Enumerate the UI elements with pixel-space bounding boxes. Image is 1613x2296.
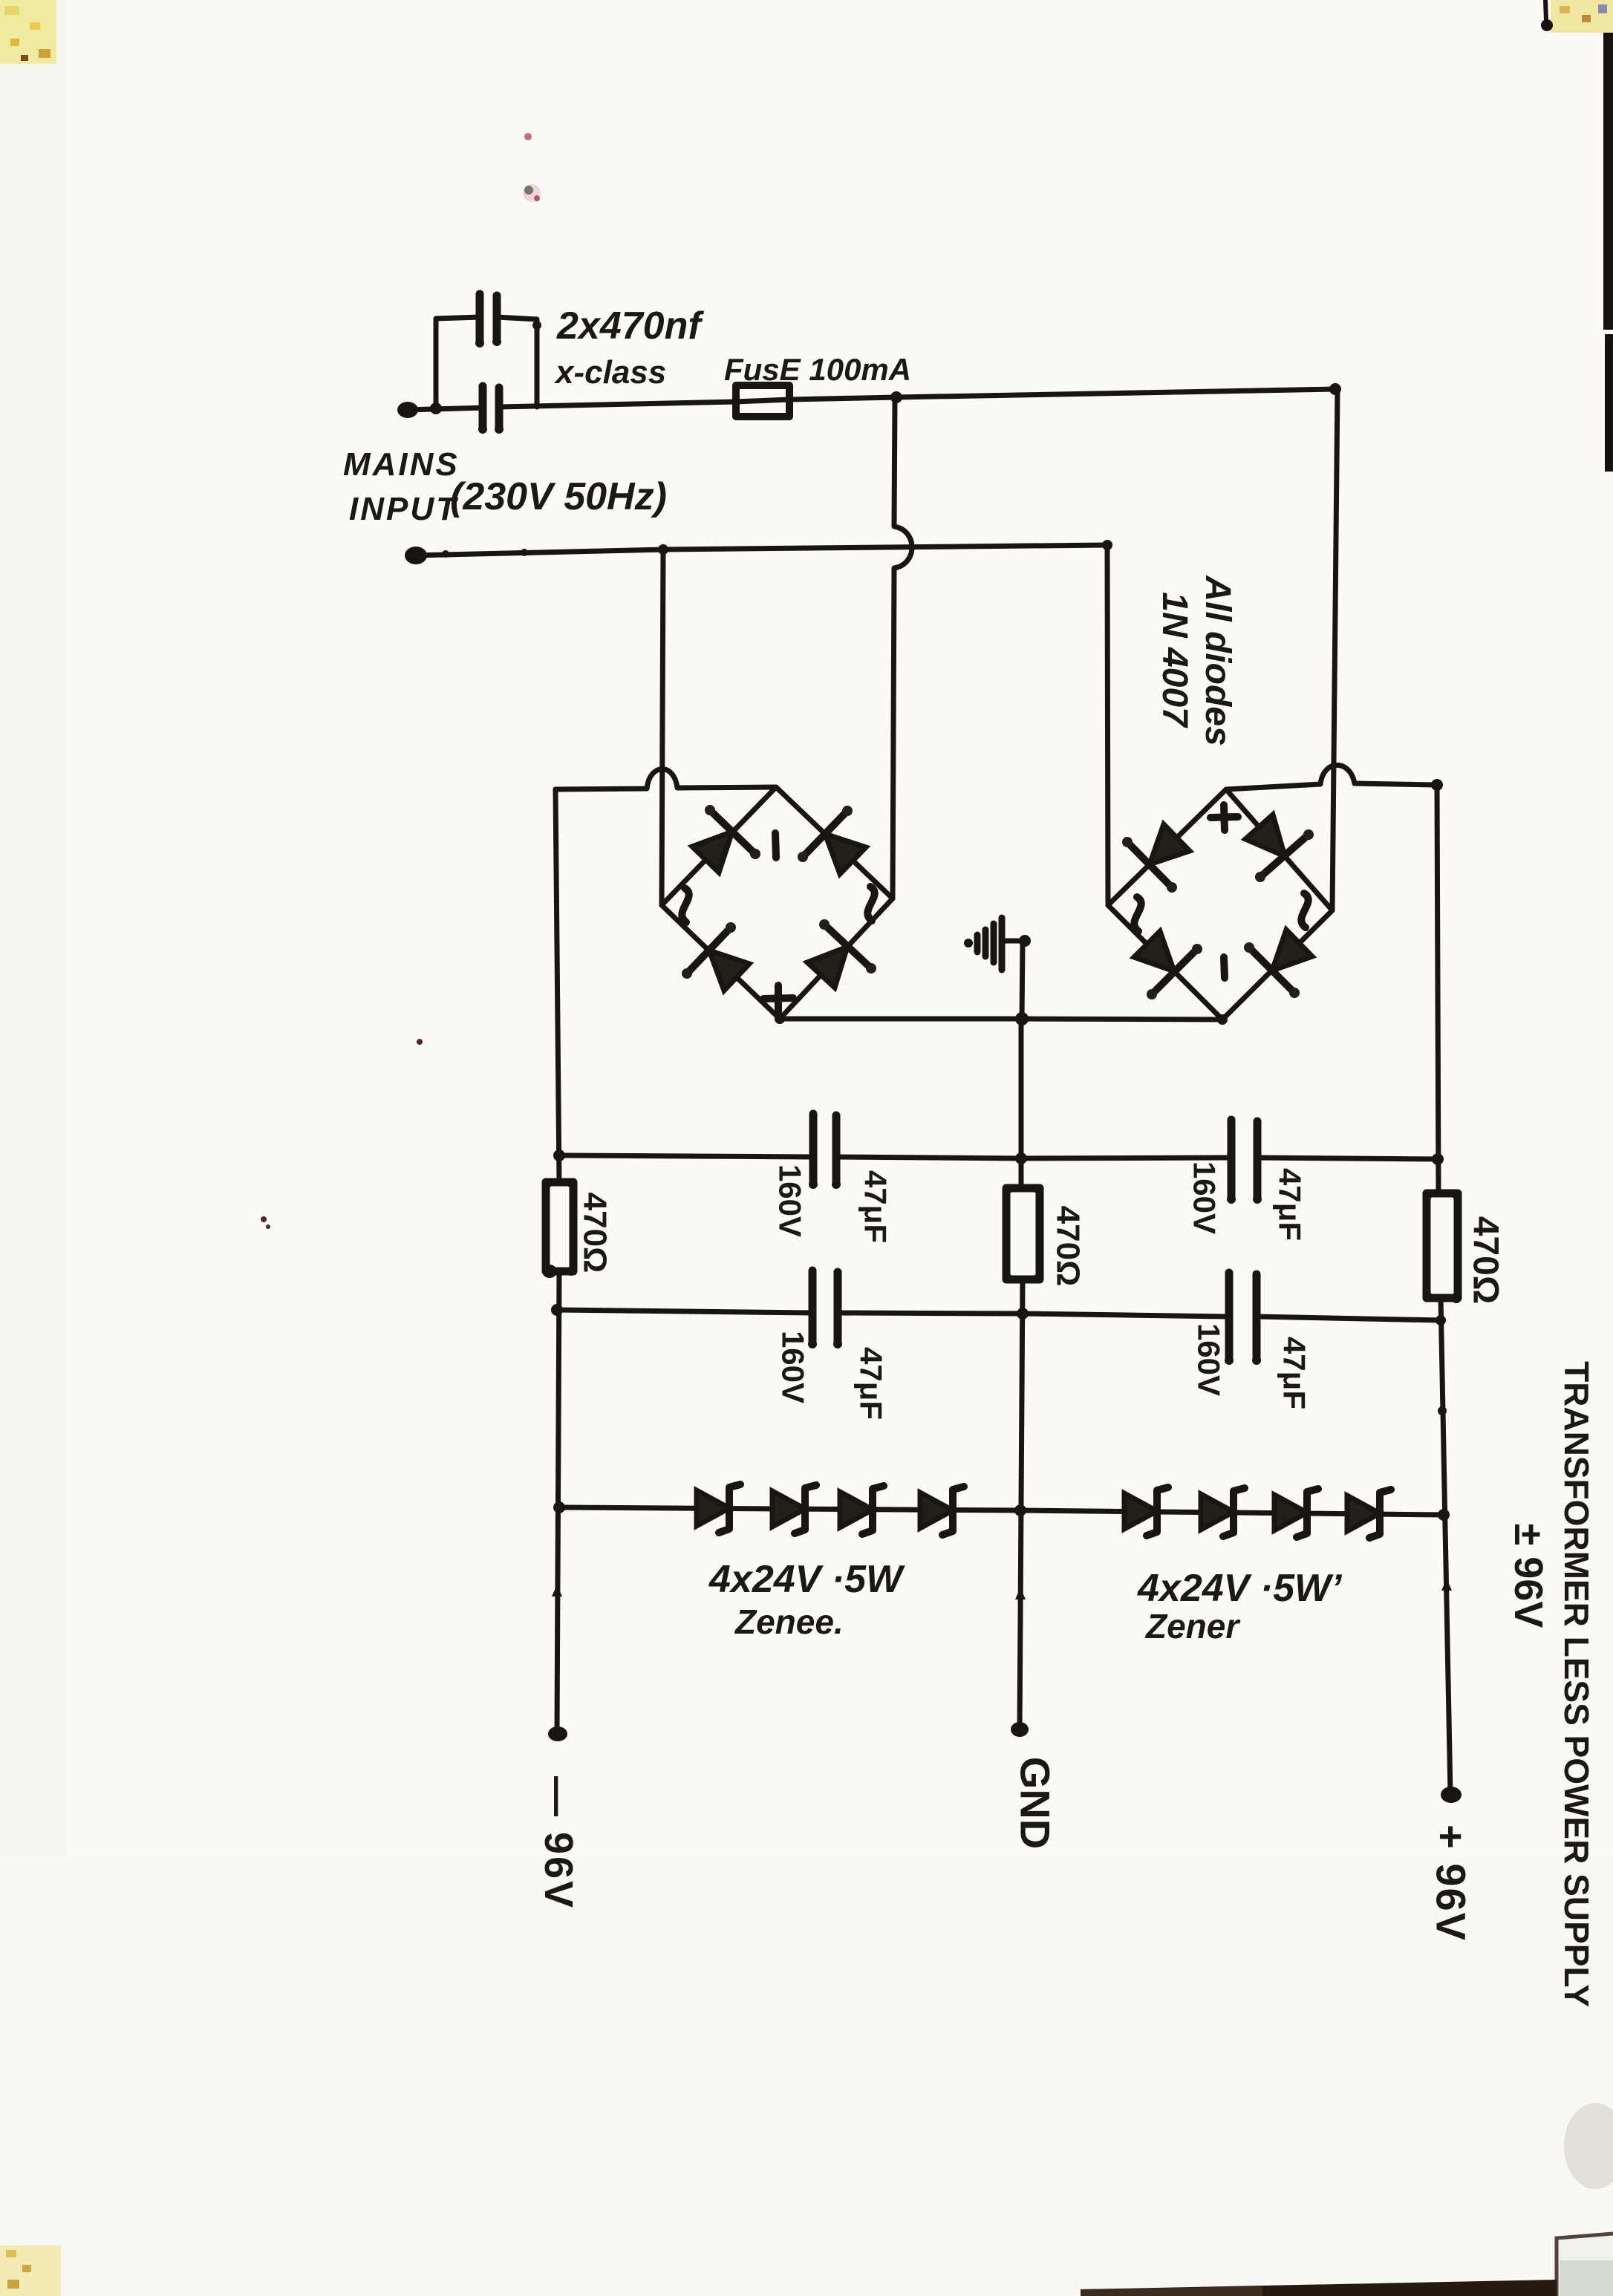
diode D6 (right bridge, upper-right edge) <box>1245 815 1314 882</box>
current arrow on left rail <box>552 1585 562 1597</box>
bridge polarity markings <box>682 805 1308 1012</box>
bottom dark strip <box>1081 2280 1557 2296</box>
ink speck maroon mid page <box>417 1039 423 1045</box>
svg-text:1N 4007: 1N 4007 <box>1155 592 1194 728</box>
wire X-cap loop <box>436 317 480 408</box>
zener Z5 <box>1124 1487 1168 1536</box>
wire left-bridge AC vertical <box>662 549 663 905</box>
node ~ mark (left bridge left) <box>682 888 688 922</box>
zener Z6 <box>1201 1488 1245 1536</box>
svg-text:INPUT: INPUT <box>349 491 458 527</box>
zener Z2 <box>772 1485 816 1533</box>
wire mains phase line <box>405 408 484 410</box>
svg-text:4x24V ·5W’: 4x24V ·5W’ <box>1137 1567 1343 1610</box>
wire left rail lower <box>557 1271 559 1732</box>
wire filter row A <box>559 1155 813 1157</box>
svg-text:± 96V: ± 96V <box>1506 1524 1551 1628</box>
wire mains neutral line <box>414 545 1107 555</box>
current arrow on middle rail <box>1015 1588 1026 1599</box>
node GND terminal <box>1011 1722 1029 1737</box>
svg-text:GND: GND <box>1012 1757 1059 1849</box>
node row B left <box>551 1304 563 1316</box>
node ~ mark (left bridge right) <box>867 887 874 921</box>
svg-text:47μF: 47μF <box>1277 1337 1312 1409</box>
current arrow on right rail <box>1441 1579 1452 1591</box>
node row A left <box>553 1149 565 1161</box>
diode D1 (left bridge, lower-left edge) <box>692 805 760 873</box>
svg-text:47μF: 47μF <box>854 1347 889 1420</box>
node ~ mark (right bridge right) <box>1301 893 1308 927</box>
node row A right <box>1432 1153 1444 1165</box>
wire phase right vertical down to right bridge <box>1332 389 1337 910</box>
zener Z3 <box>840 1486 884 1534</box>
node zener row left <box>553 1501 565 1513</box>
svg-text:All diodes: All diodes <box>1198 575 1237 746</box>
tape artifact top-left yellow <box>0 0 56 64</box>
diode D3 (left bridge, lower-left bottom edge) <box>682 922 749 991</box>
wire left rail upper <box>555 789 559 1182</box>
capacitor C3 47uF 160V <box>809 1110 841 1189</box>
fuse F1 <box>736 385 789 417</box>
zener Z1 <box>697 1484 740 1533</box>
node junction at loop left <box>430 402 442 414</box>
right edge black strip <box>1603 33 1613 330</box>
diode bridge BR2 (right) frame <box>1108 789 1332 1020</box>
wire left bridge top to left rail (hop over vertical) <box>555 769 776 789</box>
node -96V terminal <box>548 1726 567 1741</box>
node corner right rail top <box>1431 779 1443 791</box>
diode D2 (left bridge, upper-right edge) <box>798 806 866 874</box>
svg-text:(230V 50Hz): (230V 50Hz) <box>450 475 667 518</box>
node row B right <box>1436 1315 1446 1325</box>
svg-text:160V: 160V <box>773 1164 808 1237</box>
node ~ mark (right bridge left) <box>1134 897 1141 931</box>
svg-text:MAINS: MAINS <box>343 446 460 483</box>
resistor R1 470ohm <box>546 1182 573 1271</box>
node plus mark (left bridge bottom) <box>763 985 793 1012</box>
wire bridge bottoms / gnd bus <box>780 1019 1222 1020</box>
ink speck multicolour <box>523 184 541 202</box>
bottom-right gray smudge <box>1564 2103 1613 2189</box>
svg-text:Zenee.: Zenee. <box>734 1602 844 1641</box>
capacitor C2 X-class (on line) <box>478 382 504 434</box>
svg-text:+ 96V: + 96V <box>1428 1824 1475 1942</box>
svg-text:470Ω: 470Ω <box>1050 1206 1086 1287</box>
wire right rail upper <box>1437 785 1438 1193</box>
capacitor C6 47uF 160V <box>1225 1269 1261 1365</box>
wire zener row <box>559 1507 1444 1515</box>
capacitor C1 X-class (top of loop) <box>475 290 501 348</box>
wire neutral corner down to right bridge left corner <box>1107 545 1108 905</box>
wire middle rail <box>1019 1019 1024 1188</box>
zener Z7 <box>1274 1489 1318 1537</box>
node minus mark (left bridge top) <box>775 833 776 858</box>
diode D8 (right bridge, lower-right edge) <box>1244 930 1312 998</box>
node junction neutral / left-bridge vertical <box>658 544 668 555</box>
zener Z8 <box>1347 1490 1391 1538</box>
svg-text:470Ω: 470Ω <box>1466 1216 1505 1305</box>
svg-text:FusE 100mA: FusE 100mA <box>724 352 911 387</box>
node corner phase top-right <box>1329 383 1341 395</box>
diode bridge BR1 (left) frame <box>662 787 893 1019</box>
stray pen mark top right <box>1541 0 1553 31</box>
svg-text:4x24V ·5W: 4x24V ·5W <box>708 1558 905 1601</box>
svg-text:Zener: Zener <box>1144 1607 1240 1646</box>
node mains phase terminal <box>397 402 418 418</box>
node minus mark (right bridge bottom) <box>1224 957 1225 978</box>
ink speck red <box>524 133 532 140</box>
bottom-left yellow patch <box>0 2246 61 2296</box>
svg-text:160V: 160V <box>1187 1161 1222 1234</box>
svg-text:2x470nf: 2x470nf <box>556 304 704 348</box>
wire phase vertical with hop over neutral <box>893 397 912 898</box>
node corner neutral right <box>1102 540 1112 550</box>
svg-text:TRANSFORMER LESS POWER SUPPLY: TRANSFORMER LESS POWER SUPPLY <box>1557 1361 1596 2007</box>
node zener row middle <box>1014 1504 1026 1516</box>
node gnd bus junction <box>1015 1012 1029 1025</box>
node mains neutral terminal <box>405 547 427 564</box>
resistor R3 470ohm <box>1427 1193 1458 1298</box>
bottom-right torn paper corner <box>1557 2234 1613 2296</box>
svg-text:47μF: 47μF <box>1273 1168 1308 1241</box>
svg-text:x-class: x-class <box>554 354 666 391</box>
svg-text:— 96V: — 96V <box>536 1776 581 1910</box>
node row B middle <box>1017 1308 1029 1320</box>
ink speck maroon left <box>261 1216 267 1222</box>
diode D7 (right bridge, lower-left edge) <box>1134 931 1202 999</box>
node zener row right <box>1438 1509 1450 1521</box>
capacitor C4 47uF 160V <box>808 1267 842 1348</box>
diode D4 (left bridge, lower-right bottom edge) <box>807 919 876 988</box>
capacitor C5 47uF 160V <box>1227 1116 1262 1204</box>
node plus mark (right bridge top) <box>1210 805 1238 830</box>
node +96V terminal <box>1441 1787 1462 1803</box>
tape artifact top-right yellow strip <box>1551 0 1613 33</box>
resistor R2 470ohm <box>1006 1188 1040 1279</box>
wire right bridge top to right rail (hop over vertical) <box>1226 765 1437 789</box>
svg-text:160V: 160V <box>776 1331 811 1403</box>
svg-text:160V: 160V <box>1192 1323 1227 1396</box>
ground symbol <box>964 918 1031 1019</box>
zener Z4 <box>920 1487 964 1535</box>
wire filter row B <box>557 1310 812 1313</box>
svg-text:47μF: 47μF <box>858 1170 893 1243</box>
node row A middle <box>1015 1152 1027 1164</box>
svg-text:470Ω: 470Ω <box>577 1193 613 1273</box>
diode D5 (right bridge, upper-left edge) <box>1122 824 1190 893</box>
node T-junction phase/vertical <box>890 391 902 403</box>
wire right rail lower <box>1441 1298 1450 1793</box>
